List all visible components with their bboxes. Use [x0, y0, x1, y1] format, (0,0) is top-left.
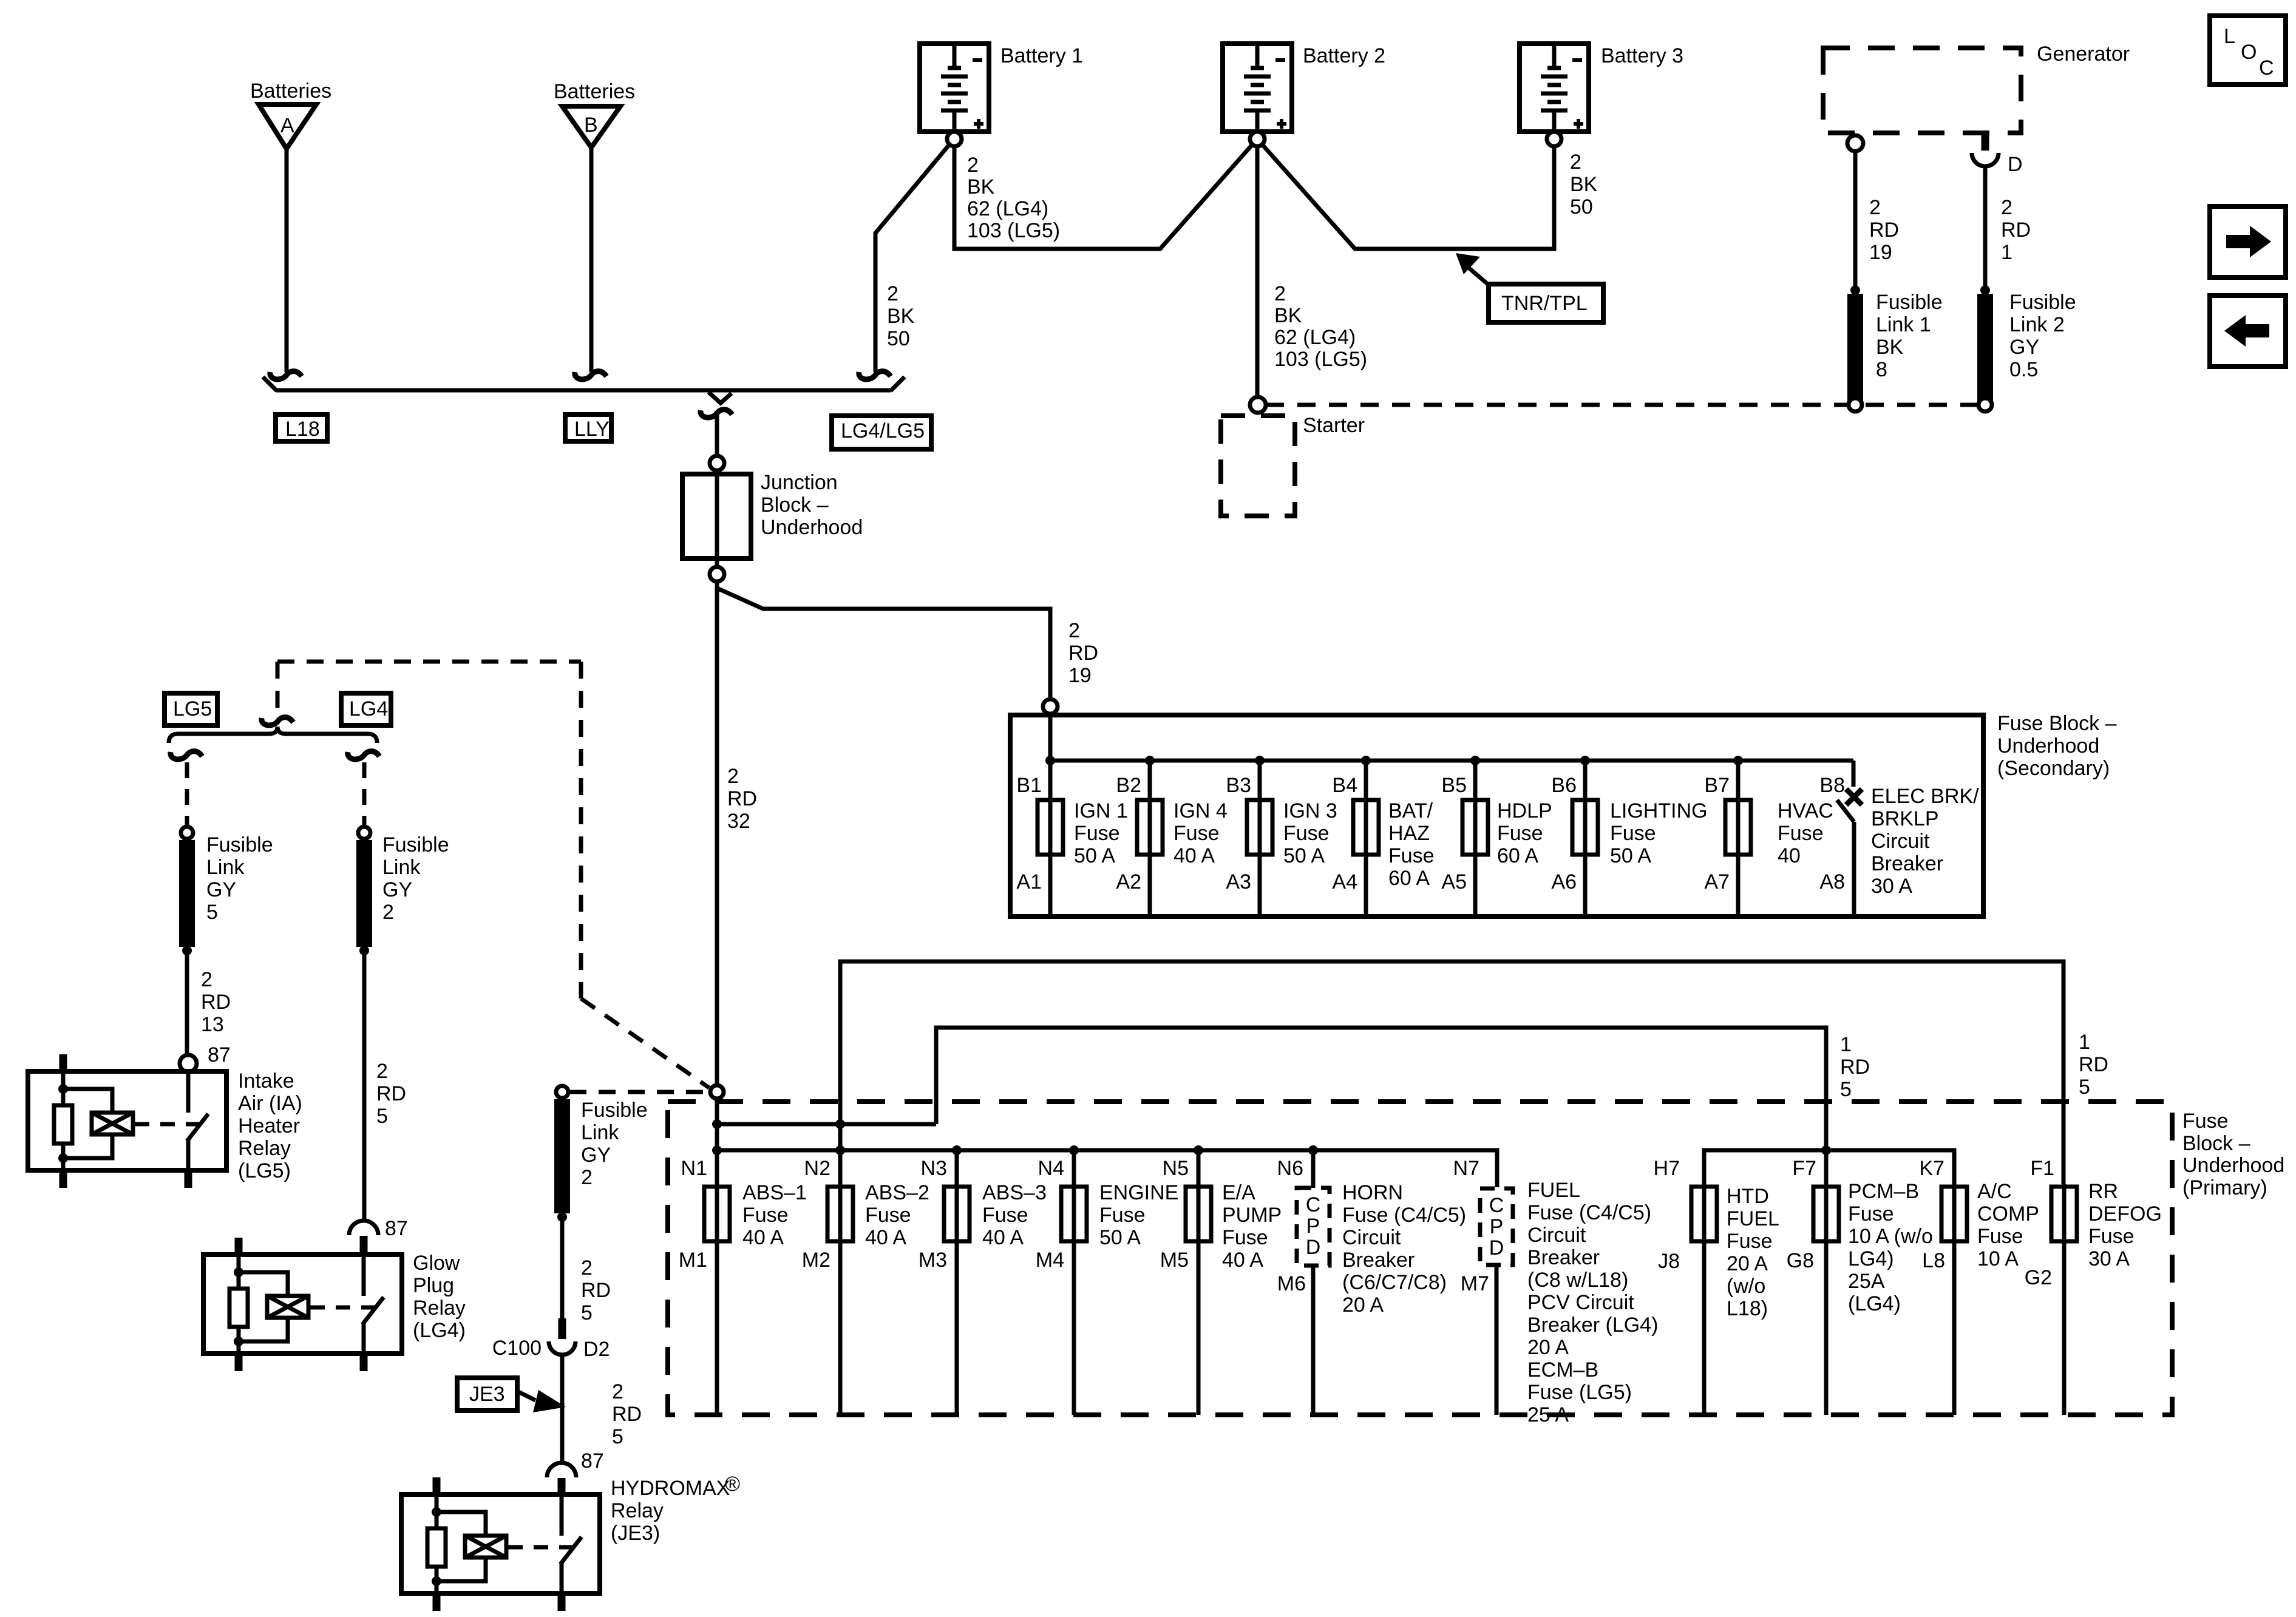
svg-text:40 A: 40 A — [1173, 844, 1215, 867]
svg-text:D: D — [1489, 1236, 1504, 1259]
svg-text:Circuit: Circuit — [1342, 1226, 1401, 1249]
wire B1 column — [1048, 714, 1053, 914]
svg-text:62 (LG4): 62 (LG4) — [967, 197, 1048, 220]
junction dot N2 bus — [835, 1145, 845, 1155]
svg-text:Fusible: Fusible — [2009, 291, 2076, 314]
svg-text:Fuse (C4/C5): Fuse (C4/C5) — [1342, 1204, 1466, 1227]
svg-text:62 (LG4): 62 (LG4) — [1274, 326, 1356, 349]
connector C100 terminal D2 — [492, 1318, 610, 1361]
svg-text:Link 1: Link 1 — [1876, 313, 1931, 336]
svg-text:(C6/C7/C8): (C6/C7/C8) — [1342, 1271, 1447, 1294]
circuit breaker FUEL Fuse (C4/C5) label block — [1527, 1179, 1658, 1426]
svg-text:A5: A5 — [1441, 870, 1467, 893]
svg-text:M5: M5 — [1160, 1249, 1189, 1272]
junction dot B6 bus — [1580, 756, 1590, 765]
svg-text:F1: F1 — [2030, 1157, 2054, 1180]
svg-text:Fuse (LG5): Fuse (LG5) — [1527, 1381, 1632, 1404]
callout JE3 with arrow — [457, 1378, 566, 1412]
svg-text:RD: RD — [727, 787, 757, 810]
svg-text:Fuse: Fuse — [1848, 1202, 1894, 1225]
wire dashed diagonal to fuse block primary junction — [581, 998, 709, 1088]
svg-text:10 A: 10 A — [1977, 1247, 2019, 1270]
svg-text:Fuse: Fuse — [1388, 844, 1435, 867]
svg-text:D: D — [2008, 153, 2023, 176]
wire dashed LG4/LG5 feed vertical — [579, 662, 583, 998]
svg-text:32: 32 — [727, 810, 750, 833]
wire break below brace left — [171, 751, 202, 759]
svg-text:Fuse: Fuse — [2088, 1225, 2135, 1248]
fuse IGN 1 Fuse 50 A (B1-A1) — [1038, 799, 1128, 867]
wire feed line 2 (to F7) — [936, 1028, 1826, 1184]
svg-text:H7: H7 — [1654, 1157, 1680, 1180]
wire feed tie horizontal — [717, 1122, 936, 1127]
starter (dashed component box) — [1221, 414, 1365, 516]
terminal circle battery 3 positive — [1547, 132, 1561, 146]
svg-text:B6: B6 — [1551, 774, 1577, 797]
junction dot N4 bus — [1069, 1145, 1079, 1155]
terminal circle fusible link 1 to starter feed — [1849, 398, 1862, 412]
svg-text:40: 40 — [1778, 844, 1801, 867]
svg-text:19: 19 — [1869, 241, 1892, 264]
wire label 1 RD 5 (F7 feed) — [1840, 1033, 1870, 1101]
svg-text:(Secondary): (Secondary) — [1997, 757, 2110, 780]
svg-text:M4: M4 — [1036, 1249, 1064, 1272]
junction dot B2 bus — [1145, 756, 1155, 765]
wire break on riser — [262, 717, 293, 725]
svg-text:BK: BK — [1274, 304, 1302, 327]
wire feed line 1 (to F1) — [840, 961, 2063, 1184]
wire dashed starter to fusible links — [1266, 403, 1977, 407]
svg-text:87: 87 — [581, 1449, 604, 1473]
svg-text:Junction: Junction — [761, 471, 838, 494]
circuit breaker ELEC BRK/BRKLP 30 A (B8-A8) — [1837, 785, 1979, 914]
svg-text:PUMP: PUMP — [1222, 1204, 1282, 1227]
svg-text:PCV Circuit: PCV Circuit — [1527, 1291, 1634, 1314]
wire F7 fuse to box edge — [1824, 1184, 1829, 1415]
svg-text:30 A: 30 A — [1871, 875, 1912, 898]
wire generator D to fusible link 2 — [1983, 168, 1988, 286]
node LG4/LG5 (engine code box) — [832, 416, 931, 449]
svg-text:LLY: LLY — [574, 418, 610, 441]
junction dot N3 bus — [952, 1145, 962, 1155]
svg-text:103 (LG5): 103 (LG5) — [967, 219, 1060, 242]
wire battery 2 to starter — [1255, 146, 1260, 396]
svg-text:(Primary): (Primary) — [2182, 1176, 2267, 1199]
wire battery B to bus — [589, 149, 594, 372]
svg-text:Breaker (LG4): Breaker (LG4) — [1527, 1314, 1658, 1337]
wire N3 bus to fuse — [955, 1150, 959, 1187]
svg-text:60 A: 60 A — [1388, 867, 1430, 890]
battery symbol Batteries B (triangle) — [554, 80, 635, 147]
svg-text:Heater: Heater — [238, 1114, 300, 1137]
svg-text:C: C — [1306, 1193, 1321, 1216]
svg-text:Link: Link — [382, 856, 421, 879]
svg-text:GY: GY — [2009, 336, 2039, 359]
svg-text:N2: N2 — [804, 1157, 830, 1180]
svg-text:(LG4): (LG4) — [1848, 1292, 1901, 1315]
svg-text:D2: D2 — [583, 1338, 610, 1361]
junction dot N6 bus — [1308, 1145, 1318, 1155]
junction dot N1 bus — [712, 1145, 722, 1155]
svg-text:B4: B4 — [1332, 774, 1357, 797]
svg-text:LG4/LG5: LG4/LG5 — [841, 419, 925, 442]
fuse ABS-3 Fuse 40 A (N3-M3) — [944, 1181, 1047, 1249]
svg-text:RD: RD — [581, 1279, 611, 1302]
wire battery A to bus — [285, 150, 289, 372]
fuse E/A PUMP Fuse 40 A (N5-M5) — [1186, 1181, 1282, 1272]
svg-text:Fuse: Fuse — [865, 1204, 911, 1227]
fuse BAT/HAZ Fuse 60 A (B4-A4) — [1353, 799, 1435, 890]
svg-text:A1: A1 — [1016, 870, 1042, 893]
svg-text:O: O — [2241, 41, 2257, 64]
wire secondary internal bus — [1050, 759, 1853, 763]
terminal circle B1 feed — [1043, 699, 1058, 714]
svg-text:Glow: Glow — [413, 1252, 460, 1275]
wire K7 fuse to box edge — [1952, 1184, 1957, 1415]
junction dot B1 bus — [1045, 756, 1055, 765]
fuse block FB2 Fuse Block - Underhood (Secondary) — [1010, 712, 2117, 917]
svg-text:A: A — [280, 114, 294, 137]
generator G1 (dashed component box) — [1823, 42, 2130, 133]
svg-text:IGN 1: IGN 1 — [1074, 799, 1128, 822]
svg-text:50 A: 50 A — [1099, 1226, 1141, 1249]
svg-text:50: 50 — [1570, 195, 1593, 219]
svg-text:Fuse (C4/C5): Fuse (C4/C5) — [1527, 1201, 1651, 1224]
wire break at battery B wire — [575, 371, 606, 379]
wire fusible link GY2 to connector C100 — [560, 1221, 565, 1318]
svg-text:N5: N5 — [1163, 1157, 1189, 1180]
svg-text:25 A: 25 A — [1527, 1403, 1569, 1426]
svg-text:(LG4): (LG4) — [413, 1319, 466, 1342]
wire H7 fuse to box edge — [1702, 1184, 1707, 1415]
svg-text:BK: BK — [967, 175, 995, 198]
svg-text:M7: M7 — [1461, 1272, 1489, 1295]
svg-text:Fusible: Fusible — [581, 1099, 648, 1122]
svg-text:JE3: JE3 — [469, 1383, 505, 1406]
fuse HDLP Fuse 60 A (B5-A5) — [1462, 799, 1552, 867]
wire N2 fuse to box edge — [838, 1184, 843, 1415]
svg-text:Batteries: Batteries — [250, 80, 331, 103]
wire label 2 RD 5 (glow plug feed) — [376, 1060, 406, 1128]
terminal circle fusible link 2 to starter feed — [1978, 398, 1992, 412]
wire N5 bus to fuse — [1197, 1150, 1201, 1187]
svg-text:M3: M3 — [919, 1249, 947, 1272]
fuse A/C COMP Fuse 10 A (K7-L8) — [1941, 1180, 2039, 1270]
svg-text:20 A: 20 A — [1342, 1293, 1384, 1317]
wire H bus — [1704, 1150, 1954, 1184]
svg-text:RR: RR — [2088, 1180, 2118, 1203]
svg-text:BK: BK — [1876, 336, 1904, 359]
svg-text:C: C — [2259, 56, 2274, 80]
legend box arrow left — [2210, 296, 2286, 367]
wire junction circle to N bus — [715, 1099, 719, 1184]
svg-text:87: 87 — [385, 1217, 408, 1240]
wire B2 column — [1148, 761, 1152, 914]
svg-text:Fuse: Fuse — [1074, 822, 1120, 845]
svg-text:5: 5 — [376, 1105, 388, 1128]
fuse HVAC Fuse 40 (B7-A7) — [1725, 799, 1833, 867]
svg-text:L18): L18) — [1727, 1297, 1768, 1320]
fuse IGN 3 Fuse 50 A (B3-A3) — [1247, 799, 1337, 867]
wire label 2 RD 1 — [2001, 196, 2031, 264]
svg-text:103 (LG5): 103 (LG5) — [1274, 348, 1367, 371]
svg-text:Fuse: Fuse — [1497, 822, 1543, 845]
svg-text:RD: RD — [376, 1082, 406, 1105]
bus end tick left — [263, 377, 277, 391]
connector terminal D of generator — [1972, 133, 2023, 176]
svg-text:60 A: 60 A — [1497, 844, 1538, 867]
wire N bus — [717, 1150, 1497, 1187]
terminal circle battery 1 positive — [947, 132, 962, 146]
relay K1 Intake Air (IA) Heater Relay (LG5) — [28, 1054, 302, 1188]
wire label 2 RD 19 (fuse block secondary feed) — [1068, 619, 1098, 687]
svg-text:M1: M1 — [679, 1249, 707, 1272]
svg-text:50: 50 — [887, 327, 910, 350]
svg-text:Breaker: Breaker — [1342, 1249, 1415, 1272]
node LG4 (engine code box) — [341, 693, 391, 725]
svg-text:2: 2 — [581, 1166, 593, 1189]
junction dot F7 H-bus — [1821, 1145, 1831, 1155]
terminal circle 87 IA heater relay — [180, 1055, 197, 1072]
svg-text:HAZ: HAZ — [1388, 822, 1430, 845]
svg-text:RD: RD — [1869, 219, 1899, 242]
svg-text:2: 2 — [382, 901, 394, 924]
svg-text:IGN 3: IGN 3 — [1283, 799, 1337, 822]
svg-text:P: P — [1306, 1215, 1320, 1238]
svg-text:GY: GY — [206, 878, 236, 901]
svg-text:5: 5 — [206, 901, 218, 924]
wire B5 column — [1473, 761, 1478, 914]
svg-text:P: P — [1490, 1215, 1504, 1238]
svg-text:10 A (w/o: 10 A (w/o — [1848, 1225, 1933, 1248]
svg-text:Breaker: Breaker — [1527, 1246, 1600, 1269]
fuse IGN 4 Fuse 40 A (B2-A2) — [1137, 799, 1228, 867]
junction dot feed tie at N1 — [712, 1119, 722, 1129]
wire label 2 BK 62 (LG4) 103 (LG5) battery 2 — [1274, 282, 1367, 371]
wire label 2 RD 13 — [201, 968, 231, 1036]
svg-text:Link: Link — [206, 856, 245, 879]
svg-text:K7: K7 — [1919, 1157, 1944, 1180]
svg-text:Fuse: Fuse — [1283, 822, 1330, 845]
callout TNR/TPL with arrow — [1456, 253, 1603, 322]
svg-text:Fuse: Fuse — [1099, 1204, 1146, 1227]
svg-text:(LG5): (LG5) — [238, 1159, 291, 1182]
svg-text:Fuse: Fuse — [1977, 1225, 2023, 1248]
svg-text:A3: A3 — [1226, 870, 1251, 893]
svg-text:2: 2 — [727, 765, 739, 788]
connector CPD (N6) — [1297, 1188, 1330, 1266]
svg-text:(w/o: (w/o — [1727, 1275, 1765, 1298]
wire 2 RD 32 junction block down to fuse block primary — [715, 581, 719, 1085]
fusible link FL4 Fusible Link GY 2 (LG4) — [358, 827, 449, 955]
svg-text:®: ® — [725, 1473, 740, 1496]
svg-text:Generator: Generator — [2037, 42, 2130, 66]
wire N5 fuse to box edge — [1197, 1184, 1201, 1415]
wire N3 fuse to box edge — [955, 1184, 959, 1415]
svg-text:Battery 2: Battery 2 — [1303, 44, 1385, 67]
svg-text:20 A: 20 A — [1527, 1336, 1569, 1359]
wire break at battery A wire — [270, 371, 302, 379]
fuse ABS-2 Fuse 40 A (N2-M2) — [827, 1181, 929, 1249]
svg-text:F7: F7 — [1792, 1157, 1816, 1180]
svg-text:Relay: Relay — [611, 1499, 664, 1522]
svg-text:2: 2 — [581, 1256, 593, 1280]
svg-text:B3: B3 — [1226, 774, 1251, 797]
svg-text:87: 87 — [208, 1043, 231, 1066]
wire break below bus at junction tap — [701, 410, 732, 418]
svg-text:2: 2 — [1570, 151, 1581, 174]
svg-text:Block –: Block – — [2182, 1132, 2250, 1155]
svg-text:HTD: HTD — [1727, 1185, 1769, 1208]
terminal circle battery 2 positive — [1250, 132, 1265, 146]
wire B4 column — [1364, 761, 1368, 914]
svg-text:RD: RD — [1068, 642, 1098, 665]
relay K3 HYDROMAX Relay (JE3) — [401, 1473, 740, 1611]
junction block J1 Junction Block - Underhood — [682, 456, 863, 581]
svg-text:Fuse: Fuse — [1778, 822, 1824, 845]
svg-text:N3: N3 — [921, 1157, 947, 1180]
wire label 2 RD 5 (above C100) — [581, 1256, 611, 1324]
svg-text:LG4): LG4) — [1848, 1247, 1894, 1270]
svg-text:ABS–2: ABS–2 — [865, 1181, 929, 1204]
node LG5 (engine code box) — [165, 693, 217, 725]
svg-text:B7: B7 — [1704, 774, 1730, 797]
fuse RR DEFOG Fuse 30 A (F1-G2) — [2051, 1180, 2162, 1270]
svg-text:(JE3): (JE3) — [611, 1522, 660, 1545]
svg-text:Battery 1: Battery 1 — [1000, 44, 1083, 67]
svg-text:RD: RD — [2079, 1053, 2108, 1076]
svg-text:RD: RD — [201, 991, 231, 1014]
svg-text:HYDROMAX: HYDROMAX — [611, 1477, 730, 1500]
connector terminal 87 HYDROMAX relay — [547, 1449, 604, 1496]
brace LG5/LG4 split — [169, 727, 377, 743]
svg-text:1: 1 — [2001, 241, 2012, 264]
fuse PCM-B Fuse (F7-G8) — [1813, 1180, 1933, 1315]
svg-text:N6: N6 — [1277, 1157, 1303, 1180]
wire dashed LG4/LG5 feed horizontal — [277, 660, 581, 664]
wire N6 CPD to box edge — [1311, 1266, 1316, 1415]
svg-text:BK: BK — [1570, 173, 1598, 196]
wire N7 CPD to box edge — [1495, 1265, 1499, 1415]
svg-text:N7: N7 — [1453, 1157, 1479, 1180]
legend box L O C — [2210, 16, 2286, 84]
svg-text:2: 2 — [376, 1060, 388, 1083]
wire N2 bus to fuse — [838, 1124, 843, 1187]
fuse LIGHTING Fuse 50 A (B6-A6) — [1572, 799, 1708, 867]
svg-text:A8: A8 — [1819, 870, 1845, 893]
svg-text:L: L — [2224, 25, 2235, 48]
wire dashed LG5 drop to fusible link — [185, 762, 189, 825]
svg-text:30 A: 30 A — [2088, 1247, 2130, 1270]
svg-text:50 A: 50 A — [1610, 844, 1651, 867]
legend box arrow right — [2210, 206, 2286, 277]
terminal circle starter battery feed — [1250, 397, 1266, 413]
wire N4 fuse to box edge — [1072, 1184, 1076, 1415]
svg-text:RD: RD — [2001, 219, 2031, 242]
svg-text:25A: 25A — [1848, 1270, 1885, 1293]
svg-text:Link 2: Link 2 — [2009, 313, 2065, 336]
battery B1 Battery 1 — [920, 44, 1083, 132]
svg-text:J8: J8 — [1658, 1250, 1680, 1273]
fusible link FL3 Fusible Link GY 5 (LG5) — [181, 827, 273, 955]
svg-text:Fuse: Fuse — [2182, 1110, 2229, 1133]
svg-text:RD: RD — [1840, 1056, 1870, 1079]
wire C100 to HYDROMAX relay 87 — [560, 1353, 565, 1463]
wire label 2 RD 19 (generator) — [1869, 196, 1899, 264]
svg-text:G2: G2 — [2025, 1266, 2052, 1289]
svg-text:BK: BK — [887, 305, 915, 328]
svg-text:Breaker: Breaker — [1871, 852, 1943, 875]
svg-text:5: 5 — [1840, 1078, 1852, 1101]
bus end tick right — [891, 377, 905, 391]
svg-text:Link: Link — [581, 1121, 619, 1144]
svg-text:40 A: 40 A — [1222, 1249, 1263, 1272]
svg-text:Relay: Relay — [238, 1137, 291, 1160]
svg-text:Relay: Relay — [413, 1297, 466, 1320]
wire fusible link GY5 to IA heater relay 87 — [185, 954, 189, 1054]
junction dot B5 bus — [1470, 756, 1480, 765]
wire generator to fusible link 1 — [1853, 152, 1858, 286]
wire battery 2 to battery 3 — [1262, 144, 1554, 249]
relay K2 Glow Plug Relay (LG4) — [203, 1238, 466, 1371]
svg-text:HORN: HORN — [1342, 1181, 1403, 1204]
svg-text:13: 13 — [201, 1013, 224, 1036]
connector terminal 87 glow plug relay — [349, 1217, 408, 1255]
svg-text:GY: GY — [581, 1144, 611, 1167]
wire B7 column — [1736, 761, 1741, 914]
svg-text:40 A: 40 A — [982, 1226, 1024, 1249]
junction dot B7 bus — [1733, 756, 1743, 765]
wire N4 bus to fuse — [1072, 1150, 1076, 1187]
wire main ground bus — [276, 388, 891, 393]
fusible link FL2 Fusible Link 2 GY 0.5 — [1980, 285, 2076, 401]
svg-text:ELEC BRK/: ELEC BRK/ — [1871, 785, 1979, 808]
circuit breaker HORN Fuse (C4/C5) 20 A label — [1342, 1181, 1466, 1317]
svg-text:Starter: Starter — [1303, 414, 1365, 437]
svg-text:ECM–B: ECM–B — [1527, 1358, 1598, 1381]
svg-text:B5: B5 — [1441, 774, 1467, 797]
svg-text:D: D — [1306, 1236, 1321, 1259]
svg-text:M2: M2 — [802, 1249, 830, 1272]
svg-text:Plug: Plug — [413, 1274, 454, 1297]
svg-text:A6: A6 — [1551, 870, 1577, 893]
svg-text:B: B — [584, 114, 598, 137]
svg-text:FUEL: FUEL — [1527, 1179, 1580, 1202]
svg-text:L18: L18 — [285, 418, 320, 441]
svg-text:PCM–B: PCM–B — [1848, 1180, 1919, 1203]
svg-text:8: 8 — [1876, 358, 1887, 381]
bus V notch at junction tap — [708, 392, 732, 403]
fuse ABS-1 Fuse 40 A (N1-M1) — [704, 1181, 807, 1249]
svg-text:FUEL: FUEL — [1727, 1207, 1779, 1230]
svg-text:1: 1 — [1840, 1033, 1852, 1056]
wire B3 column — [1258, 761, 1262, 914]
wire label 1 RD 5 (F1 feed) — [2079, 1031, 2108, 1099]
svg-text:LG5: LG5 — [173, 697, 212, 720]
svg-text:A/C: A/C — [1977, 1180, 2012, 1203]
svg-text:LG4: LG4 — [349, 697, 388, 720]
wire B6 column — [1583, 761, 1588, 914]
svg-text:2: 2 — [612, 1380, 623, 1403]
wire label 2 RD 5 (below JE3) — [612, 1380, 642, 1448]
wire break below brace right — [348, 751, 379, 759]
svg-text:Fuse: Fuse — [982, 1204, 1028, 1227]
svg-text:ENGINE: ENGINE — [1099, 1181, 1178, 1204]
svg-text:N1: N1 — [681, 1157, 707, 1180]
svg-text:40 A: 40 A — [865, 1226, 906, 1249]
svg-text:Fuse: Fuse — [1222, 1226, 1268, 1249]
wire bus tap to junction block — [715, 415, 719, 456]
